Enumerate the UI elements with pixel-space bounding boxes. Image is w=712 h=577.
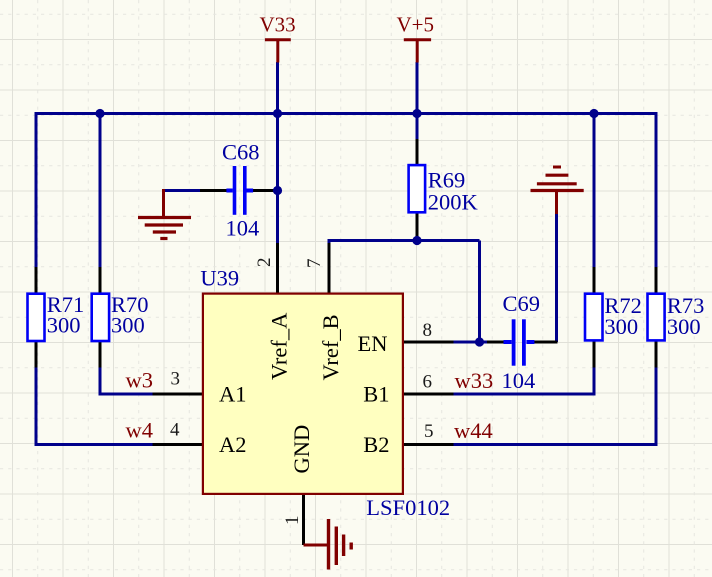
svg-text:7: 7 (304, 259, 325, 269)
svg-text:300: 300 (667, 314, 701, 339)
resistor R73 value 300 (667, 314, 701, 339)
capacitor C69 left pin (487, 341, 512, 344)
resistor R70 value 300 (111, 312, 145, 337)
wire corner to pin 7 (328, 239, 331, 245)
junction node at R70 / top rail (95, 109, 104, 118)
svg-text:A2: A2 (219, 432, 247, 457)
svg-text:5: 5 (424, 421, 434, 442)
resistor R73 (648, 294, 665, 341)
pin 6 stub U39 (403, 393, 454, 396)
pin 2 stub U39 (276, 243, 279, 293)
net label w44 (454, 418, 493, 443)
resistor R70 designator (111, 292, 149, 317)
svg-text:w33: w33 (455, 368, 494, 393)
capacitor C69 plates (512, 319, 526, 365)
capacitor C69 value 104 (502, 368, 536, 393)
pin name EN (358, 331, 388, 356)
pin number 4 (170, 419, 180, 440)
resistor R69 (409, 165, 426, 212)
svg-text:w4: w4 (126, 418, 154, 443)
pin name GND (rotated) (289, 425, 314, 474)
pin stub R73 top (655, 267, 658, 294)
wire top rail down to R72 (593, 114, 596, 269)
svg-text:300: 300 (47, 312, 81, 337)
pin stub R69 bottom (416, 212, 419, 239)
IC U39 part number label LSF0102 (366, 495, 450, 520)
capacitor C68 lead ticks (226, 189, 253, 193)
wire GND port to C68 (164, 189, 202, 192)
svg-text:B1: B1 (363, 382, 389, 407)
svg-text:A1: A1 (219, 382, 247, 407)
pin number 5 (424, 421, 434, 442)
pin stub R71 top (35, 267, 38, 294)
pin 1 stub U39 (302, 494, 305, 545)
net label w3 (126, 367, 154, 392)
resistor R71 (28, 294, 45, 341)
svg-text:104: 104 (502, 368, 536, 393)
pin stub R70 top (99, 267, 102, 294)
wire R69 bottom stub joint (416, 238, 419, 242)
pin name A2 (219, 432, 247, 457)
wire left rail down to R71 (35, 112, 38, 268)
wire V+5 down to R69 (416, 62, 419, 140)
wire w33 net pin 6 to R72 (453, 367, 594, 395)
pin name B2 (363, 432, 389, 457)
net label w33 (455, 368, 494, 393)
svg-text:w3: w3 (126, 367, 154, 392)
svg-text:200K: 200K (428, 189, 479, 214)
pin name Vref_B (rotated) (318, 314, 343, 380)
capacitor C68 designator (222, 140, 260, 165)
pin number 8 (423, 320, 433, 341)
svg-text:V+5: V+5 (397, 13, 435, 37)
net label w4 (126, 418, 154, 443)
pin 5 stub U39 (403, 443, 454, 446)
pin number 3 (171, 369, 181, 390)
resistor R72 designator (604, 293, 642, 318)
svg-text:300: 300 (111, 312, 145, 337)
wire w4 net R71 to pin 4 (36, 367, 153, 445)
capacitor C68 left pin (200, 189, 233, 192)
ground power port bottom (pin 1) (304, 519, 352, 570)
resistor R73 designator (667, 293, 705, 318)
wire EN vertical down to junction (478, 241, 481, 343)
resistor R71 designator (47, 292, 85, 317)
svg-text:300: 300 (604, 314, 638, 339)
svg-text:Vref_A: Vref_A (266, 312, 291, 380)
capacitor C69 lead ticks (504, 340, 535, 344)
pin stub R71 bottom (35, 341, 38, 368)
pin stub R70 bottom (99, 341, 102, 368)
svg-text:GND: GND (289, 425, 314, 474)
capacitor C69 right pin (527, 341, 558, 344)
pin stub R72 top (593, 267, 596, 294)
pin name Vref_A (rotated) (266, 312, 291, 380)
svg-text:2: 2 (254, 258, 275, 268)
svg-text:4: 4 (170, 419, 180, 440)
capacitor C68 right pin (247, 189, 278, 192)
svg-text:C68: C68 (222, 140, 260, 165)
resistor R72 value 300 (604, 314, 638, 339)
svg-text:U39: U39 (200, 266, 239, 291)
pin number 1 (rotated) (282, 516, 303, 526)
junction node at C68 / V33 wire (273, 186, 282, 195)
svg-text:C69: C69 (503, 291, 541, 316)
power port V33 label (260, 13, 296, 37)
wire V33 down through C68 node to pin 2 (276, 62, 279, 244)
capacitor C68 value 104 (226, 215, 260, 240)
wire pin8 to C69 left (453, 341, 488, 344)
capacitor C68 plates (233, 166, 247, 215)
wire w44 net pin 5 to R73 (453, 367, 656, 445)
resistor R69 value 200K (428, 189, 479, 214)
svg-text:Vref_B: Vref_B (318, 314, 343, 380)
junction node at V+5 / top rail (412, 109, 421, 118)
pin 3 stub U39 (153, 393, 204, 396)
pin 8 stub U39 (403, 341, 454, 344)
wire w3 net R70 to pin 3 (100, 367, 153, 395)
resistor R69 designator (428, 168, 466, 193)
pin name B1 (363, 382, 389, 407)
pin number 7 (rotated) (304, 259, 325, 269)
svg-text:6: 6 (423, 372, 433, 393)
svg-text:w44: w44 (454, 418, 493, 443)
svg-text:3: 3 (171, 369, 181, 390)
wire top rail corner down to R73 (655, 112, 658, 268)
svg-text:EN: EN (358, 331, 388, 356)
wire earth ground down to C69 right (555, 213, 558, 342)
junction node at EN pin 8 (475, 337, 484, 346)
IC U39 body (203, 294, 403, 494)
power port V+5 (404, 40, 431, 63)
wire R69 bottom horizontal y=240.5 (329, 239, 480, 242)
resistor R70 (92, 294, 109, 341)
ground GND port left (138, 189, 191, 239)
pin number 6 (423, 372, 433, 393)
pin 7 stub U39 (328, 243, 331, 293)
pin name A1 (219, 382, 247, 407)
svg-text:8: 8 (423, 320, 433, 341)
junction node at R72 / top rail (589, 109, 598, 118)
svg-text:B2: B2 (363, 432, 389, 457)
IC U39 designator label (200, 266, 239, 291)
pin stub R73 bottom (655, 341, 658, 368)
pin stub R69 top (416, 139, 419, 166)
pin number 2 (rotated) (254, 258, 275, 268)
svg-text:1: 1 (282, 516, 303, 526)
resistor R72 (585, 294, 603, 341)
wire down to R70 (99, 114, 102, 269)
power port V+5 label (397, 13, 435, 37)
svg-text:LSF0102: LSF0102 (366, 495, 450, 520)
ground earth port top right (531, 167, 584, 214)
svg-text:V33: V33 (260, 13, 296, 37)
wire main top rail y=113 (36, 112, 656, 115)
pin stub R72 bottom (593, 341, 596, 368)
power port V33 (265, 40, 291, 63)
pin 4 stub U39 (153, 443, 204, 446)
junction node at V33 / top rail (273, 109, 282, 118)
capacitor C69 designator (503, 291, 541, 316)
resistor R71 value 300 (47, 312, 81, 337)
svg-text:104: 104 (226, 215, 260, 240)
junction node at R69 bottom (412, 236, 421, 245)
